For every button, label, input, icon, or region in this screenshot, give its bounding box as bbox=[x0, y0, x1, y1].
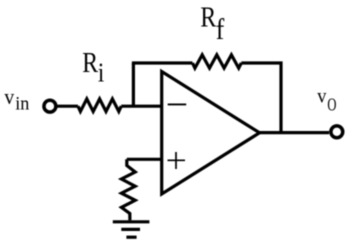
svg-text:R: R bbox=[200, 2, 216, 33]
svg-text:O: O bbox=[327, 96, 336, 116]
svg-text:R: R bbox=[82, 47, 98, 78]
svg-text:f: f bbox=[216, 13, 225, 46]
svg-text:in: in bbox=[15, 93, 30, 115]
svg-text:v: v bbox=[4, 84, 14, 110]
svg-text:v: v bbox=[317, 84, 326, 107]
svg-text:i: i bbox=[98, 59, 104, 88]
